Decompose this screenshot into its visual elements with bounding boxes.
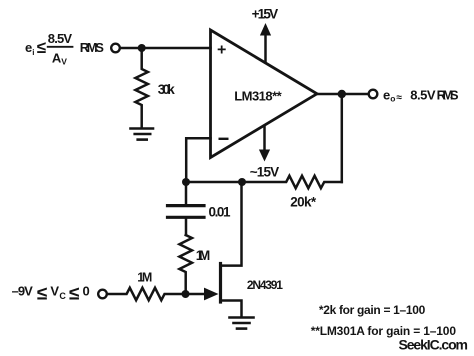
svg-text:2N4391: 2N4391 [247,278,283,292]
svg-text:1M: 1M [137,271,152,285]
svg-text:SeekIC.com: SeekIC.com [399,336,469,352]
svg-text:≈: ≈ [397,93,403,104]
svg-text:≤: ≤ [37,38,46,57]
svg-text:*2k for gain = 1–100: *2k for gain = 1–100 [319,303,426,317]
svg-text:~15V: ~15V [250,165,280,180]
svg-text:30k: 30k [158,82,175,97]
svg-text:8.5V: 8.5V [48,31,73,46]
svg-text:≤: ≤ [37,284,47,305]
svg-text:+: + [217,42,226,59]
svg-text:20k*: 20k* [290,195,317,210]
svg-text:0.01: 0.01 [209,204,231,219]
svg-text:V: V [61,57,67,67]
svg-text:V: V [50,284,59,299]
svg-text:≤: ≤ [69,284,79,305]
svg-text:e: e [25,40,32,55]
svg-text:0: 0 [83,284,90,299]
svg-text:8.5V: 8.5V [410,88,436,103]
svg-text:RMS: RMS [437,88,459,103]
svg-text:C: C [59,291,66,301]
svg-text:i: i [32,48,34,57]
svg-text:e: e [383,87,390,102]
svg-text:LM318**: LM318** [234,88,282,103]
svg-text:+15V: +15V [252,7,279,22]
svg-text:–9V: –9V [12,284,34,299]
svg-text:1M: 1M [196,248,211,263]
svg-text:RMS: RMS [80,40,105,55]
svg-text:o: o [390,94,395,104]
